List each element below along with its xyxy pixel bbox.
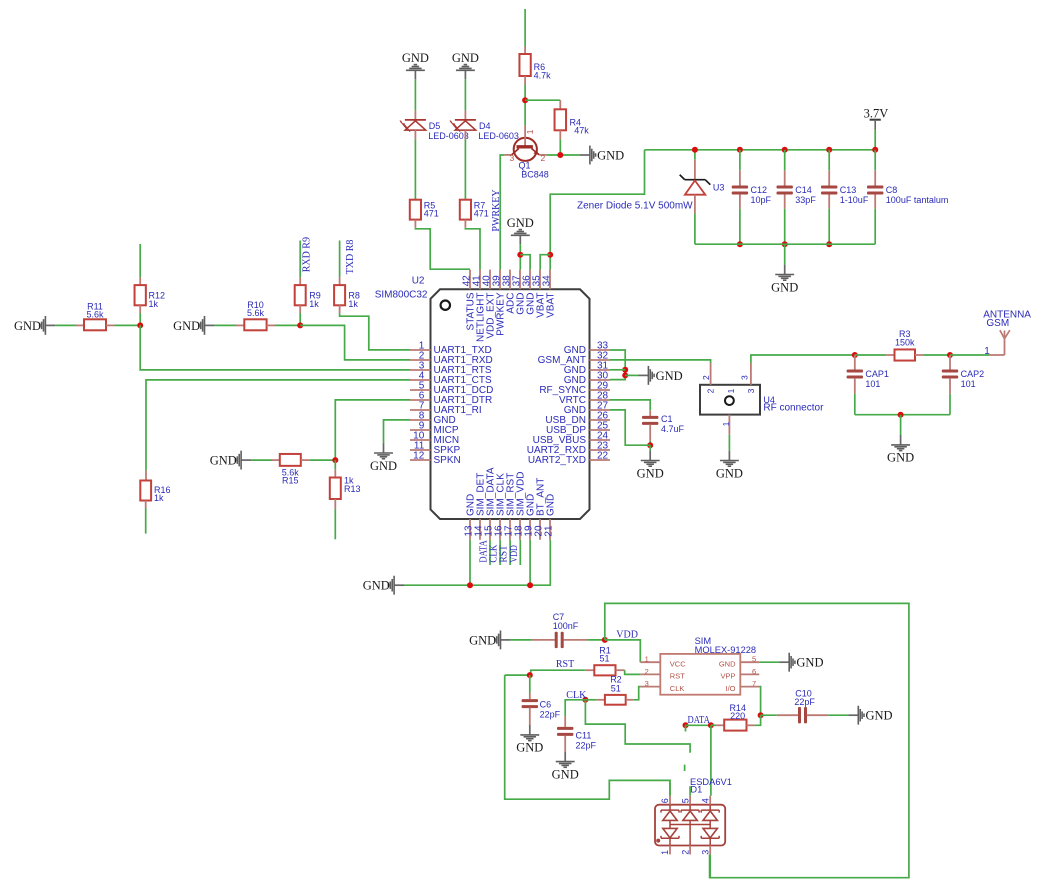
pin lead U2 pin 10 xyxy=(410,439,431,441)
svg-text:51: 51 xyxy=(600,653,610,663)
pin lead U2 pin 29 xyxy=(590,389,611,391)
wire pin4 to R16 xyxy=(146,380,410,471)
resistor R13 xyxy=(330,478,341,500)
zener diode U3 xyxy=(680,160,711,214)
wire DATA to D1 pin4 xyxy=(710,725,712,795)
wire R2 to SIM clk xyxy=(634,687,641,700)
pin lead R10 right xyxy=(267,324,275,326)
ground GND at Q1 xyxy=(580,146,624,165)
junction R4/emitter node xyxy=(557,152,563,158)
wire DATA to R14 xyxy=(711,724,716,726)
pin lead U2 pin 2 xyxy=(410,359,431,361)
svg-text:I/O: I/O xyxy=(725,684,735,693)
svg-text:1-10uF: 1-10uF xyxy=(840,195,869,205)
ground GND below C6 xyxy=(516,725,543,755)
svg-text:VDD: VDD xyxy=(509,545,520,563)
svg-text:101: 101 xyxy=(865,379,880,389)
wire DATA stub xyxy=(685,725,687,731)
wire CLK to D1 pin5 b xyxy=(689,786,691,796)
svg-text:1: 1 xyxy=(525,129,535,134)
svg-text:101: 101 xyxy=(961,379,976,389)
svg-text:22pF: 22pF xyxy=(794,697,815,707)
svg-text:GSM: GSM xyxy=(986,318,1009,329)
junction rail C12 top node xyxy=(737,147,743,153)
ground GND at pin30 xyxy=(639,366,683,385)
wire node to pin2 xyxy=(300,325,410,360)
wire caps bottom rail xyxy=(695,243,875,245)
pin lead R4 bottom xyxy=(559,130,561,139)
svg-text:CAP1: CAP1 xyxy=(865,369,889,379)
wire GND to D4 xyxy=(464,79,466,110)
svg-text:100uF tantalum: 100uF tantalum xyxy=(886,195,949,205)
pin lead U2 pin 36 xyxy=(529,270,531,290)
wire GND to R11 xyxy=(55,324,75,326)
wire R8 to pin1 xyxy=(340,313,410,350)
svg-text:3: 3 xyxy=(739,375,749,380)
capacitor C14 xyxy=(777,186,793,195)
svg-text:1: 1 xyxy=(645,655,649,664)
wire stub CLK xyxy=(499,540,501,565)
ground GND antenna caps xyxy=(887,435,914,465)
junction rail U3 node xyxy=(692,147,698,153)
svg-text:CLK: CLK xyxy=(670,684,685,693)
wire antenna cap gnd rail xyxy=(855,414,950,416)
wire SIM io to node xyxy=(759,687,760,716)
wire CAP2 to antenna lead xyxy=(950,354,990,356)
svg-text:GND: GND xyxy=(516,741,543,755)
pin lead CAP1 top xyxy=(854,355,856,370)
wire to R3 xyxy=(855,354,886,356)
wire rail to U3 xyxy=(694,150,696,160)
svg-text:4.7uF: 4.7uF xyxy=(661,424,685,434)
resistor R6 xyxy=(519,54,530,76)
wire GND to R10 xyxy=(214,324,236,326)
wire pin33 down xyxy=(610,350,625,380)
svg-text:10pF: 10pF xyxy=(751,195,772,205)
wire GND to D5 xyxy=(414,79,416,110)
wire branch to pin36 xyxy=(520,255,530,270)
junction rail C8 node xyxy=(872,147,878,153)
resistor R16 xyxy=(140,481,151,501)
resistor R12 xyxy=(135,285,146,305)
wire C1 to node xyxy=(649,441,651,445)
resistor R4 xyxy=(555,109,567,130)
wire C10 to GND xyxy=(828,714,848,716)
wire pin8 to GND xyxy=(384,420,411,443)
pin lead U2 pin 16 xyxy=(499,519,501,540)
LED D5 xyxy=(400,111,426,140)
pin lead R12 bottom xyxy=(139,305,141,313)
wire D1 pin6 green xyxy=(669,780,671,795)
svg-text:UART2_TXD: UART2_TXD xyxy=(528,455,586,466)
pin lead U2 pin 24 xyxy=(590,439,611,441)
wire U4 pin3 up xyxy=(751,355,855,363)
junction rail pin19 node xyxy=(527,582,533,588)
wire RST to loop xyxy=(505,675,670,799)
svg-text:U2: U2 xyxy=(412,275,425,286)
wire GND to pin37 xyxy=(519,244,521,269)
wire RST wire xyxy=(505,670,586,675)
pin lead R9 top xyxy=(299,277,301,285)
pin lead CAP1 bottom xyxy=(854,378,856,394)
resistor R3 xyxy=(895,349,916,360)
svg-text:VCC: VCC xyxy=(670,660,686,669)
op-amp U2 SIM800C32 body xyxy=(431,289,590,519)
wire U3 to bottom rail xyxy=(694,214,696,245)
svg-text:SIM800C32: SIM800C32 xyxy=(375,290,428,301)
svg-text:GND: GND xyxy=(719,660,736,669)
wire GSM_ANT to U4 xyxy=(610,360,711,363)
svg-text:GND: GND xyxy=(546,494,557,516)
pin lead R1 right xyxy=(616,669,625,671)
svg-text:LED-0603: LED-0603 xyxy=(478,131,519,141)
svg-text:D1: D1 xyxy=(690,785,702,795)
pin lead R5 bottom xyxy=(414,220,416,228)
resistor R9 xyxy=(295,285,306,305)
pin lead R16 bottom xyxy=(145,501,147,509)
pin lead C11 bottom xyxy=(564,735,566,751)
svg-text:GND: GND xyxy=(597,148,624,162)
pin lead R15 left xyxy=(272,459,280,461)
connector SIM MOLEX-91228 xyxy=(640,654,759,695)
transistor Q1 xyxy=(504,125,546,163)
junction pin31 node xyxy=(622,367,628,373)
capacitor C7 xyxy=(555,632,564,648)
pin lead R16 top xyxy=(145,471,147,481)
wire GND to C7 xyxy=(510,639,531,641)
pin lead U2 pin 42 xyxy=(469,270,471,290)
junction CAP1 node xyxy=(852,352,858,358)
wire VBAT stub to R6 xyxy=(524,9,526,47)
ground GND below C11 xyxy=(552,752,579,782)
junction rail pin13 node xyxy=(467,582,473,588)
svg-text:220: 220 xyxy=(730,711,745,721)
wire CAP1 to rail xyxy=(854,394,856,415)
ground GND below U4 xyxy=(716,451,743,481)
wire stub RST xyxy=(509,540,511,565)
capacitor C6 xyxy=(522,699,538,708)
pin lead R4 top xyxy=(559,100,561,109)
svg-text:7: 7 xyxy=(752,679,756,688)
svg-text:C6: C6 xyxy=(540,700,552,710)
wire C7 to VDD node xyxy=(587,639,604,641)
wire pin27 to node xyxy=(610,410,650,445)
ground GND below cap rail xyxy=(771,265,798,295)
capacitor CAP2 xyxy=(942,370,958,379)
pin lead U2 pin 23 xyxy=(590,449,611,451)
svg-text:100nF: 100nF xyxy=(553,621,579,631)
pin lead U2 pin 9 xyxy=(410,429,431,431)
pin lead R12 top xyxy=(139,277,141,285)
pin lead C14 top xyxy=(784,170,786,185)
junction DATA node 2 xyxy=(708,722,714,728)
pin lead U2 pin 8 xyxy=(410,419,431,421)
ground GND above D5 xyxy=(402,51,429,79)
pin lead U2 pin 38 xyxy=(509,270,511,290)
wire 3.7V to rail xyxy=(874,130,876,150)
LED D4 xyxy=(450,111,476,140)
diode array D1 ESDA6V1 xyxy=(655,796,725,855)
ground GND at R15 xyxy=(210,451,251,470)
wire R1 to SIM rst xyxy=(625,670,641,674)
capacitor C12 xyxy=(732,186,748,195)
wire R6 to Q1 base xyxy=(524,85,526,125)
capacitor C10 xyxy=(798,707,807,723)
wire R12 to node xyxy=(139,313,141,325)
svg-text:3: 3 xyxy=(510,153,515,163)
pin lead R14 left xyxy=(716,724,724,726)
pin lead U2 pin 6 xyxy=(410,399,431,401)
pin lead U2 pin 15 xyxy=(489,519,491,540)
svg-text:GND: GND xyxy=(363,579,390,593)
pin lead U2 pin 18 xyxy=(519,519,521,540)
wire pin6 to node xyxy=(335,400,410,460)
pin lead C13 bottom xyxy=(828,195,830,209)
resistor R10 xyxy=(244,319,266,330)
capacitor C11 xyxy=(557,727,573,736)
pin lead U2 pin 28 xyxy=(590,399,611,401)
capacitor C1 xyxy=(642,416,658,425)
svg-text:GND: GND xyxy=(14,319,41,333)
wire R13 stub xyxy=(334,509,336,539)
pin lead C10 right xyxy=(807,714,828,716)
wire D4 to R7 xyxy=(464,139,466,200)
pin lead R11 left xyxy=(76,324,85,326)
wire R11 to node xyxy=(114,324,140,326)
svg-text:1: 1 xyxy=(721,421,731,426)
wire DATA wire xyxy=(686,724,711,726)
pin lead U2 pin 14 xyxy=(479,519,481,540)
wire stub DATA xyxy=(489,540,491,565)
ground GND above D4 xyxy=(452,51,479,79)
capacitor CAP1 xyxy=(847,370,863,379)
pin lead R13 bottom xyxy=(334,499,336,509)
pin lead U2 pin 12 xyxy=(410,459,431,461)
pin lead U2 pin 13 xyxy=(469,519,471,540)
resistor R5 xyxy=(410,200,421,220)
svg-text:R15: R15 xyxy=(282,476,299,486)
pin lead R3 left xyxy=(886,354,894,356)
svg-text:22pF: 22pF xyxy=(576,741,597,751)
svg-text:GND: GND xyxy=(656,369,683,383)
svg-text:21: 21 xyxy=(543,525,554,537)
junction DATA node 1 xyxy=(683,722,689,728)
svg-text:GND: GND xyxy=(210,454,237,468)
pin lead R10 left xyxy=(236,324,244,326)
pin lead U2 pin 17 xyxy=(509,519,511,540)
ground GND at R10 xyxy=(173,316,214,335)
svg-text:SPKN: SPKN xyxy=(434,455,461,466)
wire pin13 to rail xyxy=(469,540,471,585)
pin lead U2 pin 1 xyxy=(410,349,431,351)
junction rail C13 top node xyxy=(826,147,832,153)
wire branch to pin35 xyxy=(540,255,550,270)
wire R12 stub xyxy=(139,244,141,277)
resistor R8 xyxy=(334,285,345,305)
wire PWRKEY net xyxy=(500,155,504,270)
wire R4 to emitter node xyxy=(559,139,561,155)
svg-text:471: 471 xyxy=(424,208,439,218)
pin lead C14 bottom xyxy=(784,195,786,209)
svg-text:GND: GND xyxy=(402,51,429,65)
svg-text:VBAT: VBAT xyxy=(546,293,557,318)
pin lead U2 pin 27 xyxy=(590,409,611,411)
svg-text:5.6k: 5.6k xyxy=(247,308,265,318)
junction CLK node xyxy=(582,697,588,703)
pin lead U2 pin 35 xyxy=(539,270,541,290)
svg-text:1: 1 xyxy=(660,850,670,855)
wire node to pin3 xyxy=(140,325,410,370)
wire pin31 link xyxy=(610,369,625,371)
svg-text:RST: RST xyxy=(556,659,574,670)
pin lead C1 bottom xyxy=(649,424,651,441)
wire C13 to bottom rail xyxy=(828,209,830,244)
wire RST node to C6 xyxy=(529,675,531,693)
svg-text:2: 2 xyxy=(541,153,546,163)
junction bottom rail C12 node xyxy=(737,241,743,247)
pin lead C7 left xyxy=(531,639,555,641)
pin lead C12 top xyxy=(739,170,741,185)
svg-text:22: 22 xyxy=(597,450,609,461)
pin lead U2 pin 41 xyxy=(479,270,481,290)
svg-text:1: 1 xyxy=(984,346,990,357)
pin lead R6 top xyxy=(524,47,526,55)
svg-text:GND: GND xyxy=(552,767,579,781)
pin lead U2 pin 11 xyxy=(410,449,431,451)
junction bottom rail C13 node xyxy=(826,241,832,247)
svg-text:D5: D5 xyxy=(429,121,441,131)
svg-text:GND: GND xyxy=(866,709,893,723)
svg-text:6: 6 xyxy=(660,798,670,803)
svg-text:33pF: 33pF xyxy=(795,195,816,205)
wire R14 to node xyxy=(755,715,761,725)
pin lead U2 pin 26 xyxy=(590,419,611,421)
wire C8 to bottom rail xyxy=(874,209,876,244)
pin lead C8 top xyxy=(874,170,876,185)
svg-text:MOLEX-91228: MOLEX-91228 xyxy=(695,645,757,655)
junction pin37 branch xyxy=(517,252,523,258)
svg-text:RF connector: RF connector xyxy=(763,403,824,414)
svg-text:VPP: VPP xyxy=(720,672,735,681)
wire U4 pin1 to GND xyxy=(728,435,730,451)
pin lead C13 top xyxy=(828,170,830,185)
wire SIM gnd to GND xyxy=(759,661,779,663)
svg-text:RXD R9: RXD R9 xyxy=(301,237,312,272)
pin lead R6 bottom xyxy=(524,76,526,85)
svg-text:12: 12 xyxy=(413,450,425,461)
ground GND above pin37 xyxy=(507,216,534,244)
svg-text:PWRKEY: PWRKEY xyxy=(491,189,502,231)
wire R3 to CAP2 xyxy=(923,354,950,356)
wire CAP2 to rail xyxy=(949,394,951,415)
pin lead C1 top xyxy=(649,410,651,416)
pin lead R1 left xyxy=(585,669,594,671)
svg-text:22pF: 22pF xyxy=(540,710,561,720)
wire VDD loop xyxy=(605,603,909,877)
wire CLK to R2 xyxy=(585,699,596,701)
svg-text:Zener Diode 5.1V 500mW: Zener Diode 5.1V 500mW xyxy=(577,200,693,211)
wire D1 pin3 to loop xyxy=(709,854,711,877)
wire rail to C14 xyxy=(784,150,786,171)
pin lead R14 right xyxy=(747,724,755,726)
resistor R2 xyxy=(605,695,626,705)
ground GND at C10 xyxy=(848,706,892,725)
wire rail to C12 xyxy=(739,150,741,171)
svg-text:GND: GND xyxy=(370,459,397,473)
wire C12 to bottom rail xyxy=(739,209,741,244)
pin lead U2 pin 20 xyxy=(539,519,541,540)
wire rail to GND xyxy=(900,415,902,435)
junction R14/C10 node xyxy=(758,712,764,718)
svg-text:471: 471 xyxy=(474,208,489,218)
pin lead C8 bottom xyxy=(874,195,876,209)
wire stub VDD xyxy=(519,540,521,565)
pin lead CAP2 top xyxy=(949,355,951,370)
ground GND at pin8 xyxy=(370,443,397,473)
wire CLK to D1 pin5 a xyxy=(585,700,690,753)
wire VDD to SIM vcc xyxy=(605,640,641,662)
capacitor C13 xyxy=(821,186,837,195)
svg-text:C11: C11 xyxy=(576,731,592,741)
pin lead C10 left xyxy=(777,714,798,716)
pin lead U2 pin 5 xyxy=(410,389,431,391)
svg-text:GND: GND xyxy=(452,51,479,65)
wire R10 to node xyxy=(275,324,300,326)
svg-text:VDD: VDD xyxy=(616,629,638,640)
pin lead U2 pin 37 xyxy=(519,270,521,290)
pin lead U2 pin 4 xyxy=(410,379,431,381)
svg-text:U3: U3 xyxy=(713,182,725,192)
svg-text:GND: GND xyxy=(173,319,200,333)
pin lead C11 top xyxy=(564,716,566,727)
resistor R11 xyxy=(84,319,106,330)
pin lead U2 pin 22 xyxy=(590,459,611,461)
pin lead R2 right xyxy=(626,699,634,701)
svg-text:TXD R8: TXD R8 xyxy=(345,240,356,275)
wire to GND right xyxy=(625,374,638,376)
wire bottom gnd rail xyxy=(404,540,550,585)
svg-text:CAP2: CAP2 xyxy=(961,369,985,379)
pin lead R11 right xyxy=(106,324,114,326)
pin lead C6 bottom xyxy=(529,708,531,725)
wire R5 to pin42 xyxy=(415,228,470,270)
wire CLK to C11 xyxy=(565,700,585,717)
svg-text:5.6k: 5.6k xyxy=(86,310,104,320)
connector U4 xyxy=(700,363,760,435)
pin lead U2 pin 3 xyxy=(410,369,431,371)
resistor R15 xyxy=(280,454,301,466)
pin lead U2 pin 19 xyxy=(529,519,531,540)
svg-text:BC848: BC848 xyxy=(521,170,549,180)
pin lead R13 top xyxy=(334,470,336,478)
wire VBAT from rail xyxy=(550,150,644,270)
pin lead R9 bottom xyxy=(299,305,301,313)
svg-text:GND: GND xyxy=(637,466,664,480)
junction bottom rail C14 node xyxy=(782,241,788,247)
svg-text:1: 1 xyxy=(726,388,736,393)
wire rail to C13 xyxy=(828,150,830,171)
junction R6/R4 node xyxy=(522,97,528,103)
wire node to C10 xyxy=(761,714,777,716)
svg-text:GND: GND xyxy=(507,216,534,230)
wire pin19 to rail xyxy=(529,540,531,585)
wire Q1 emitter to GND xyxy=(547,154,580,156)
junction R11/R12 node xyxy=(137,322,143,328)
svg-text:3: 3 xyxy=(700,850,710,855)
svg-text:C14: C14 xyxy=(795,185,812,195)
wire C1 gnd stub xyxy=(649,445,651,450)
wire R8 stub xyxy=(339,241,341,278)
